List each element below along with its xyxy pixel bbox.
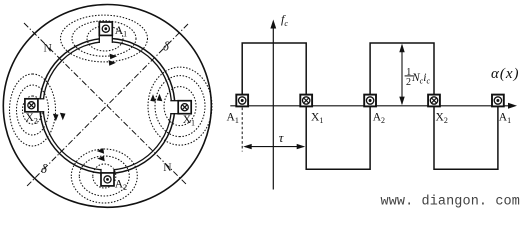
amplitude arrow	[401, 45, 403, 104]
stator outer circle	[3, 5, 211, 208]
flux arrow	[110, 54, 118, 60]
conductor A1' on axis	[492, 95, 504, 107]
rotor ring inner circle	[43, 42, 171, 170]
tau dimension arrow	[245, 146, 304, 148]
conductor X1 (right) slot + square	[170, 101, 192, 114]
conductor X1 on axis	[300, 95, 312, 107]
x axis arrowhead	[508, 103, 517, 109]
rotor ring outer circle	[40, 38, 175, 173]
conductor A1 on axis	[236, 95, 248, 107]
conductor X2 (left) slot + square	[25, 99, 45, 112]
flux arrow	[109, 60, 117, 66]
tau extension dashed line	[241, 108, 243, 152]
flux arrow	[53, 114, 59, 122]
flux arrow	[150, 94, 156, 102]
flux arrow	[60, 113, 66, 121]
svg-text:2: 2	[406, 77, 411, 88]
svg-text:δ: δ	[163, 39, 169, 53]
svg-text:α(x): α(x)	[491, 66, 520, 82]
x axis	[230, 105, 511, 107]
conductor X2 (left) flux loops	[10, 74, 66, 146]
svg-text:www. diangon. com: www. diangon. com	[381, 194, 520, 209]
conductor A2 (bottom) slot + square	[101, 168, 114, 186]
label 1/2 Nc ic	[405, 67, 431, 88]
conductor A1 (top) flux loops	[61, 15, 148, 66]
svg-text:N: N	[44, 42, 53, 54]
y axis arrowhead	[270, 20, 276, 29]
mmf square wave	[242, 43, 498, 169]
y axis	[272, 25, 274, 190]
flux arrow	[97, 148, 105, 154]
svg-text:δ: δ	[41, 162, 47, 176]
conductor A2 on axis	[364, 95, 376, 107]
pole axis NE-SW (dash-dot)	[26, 24, 188, 187]
conductor X1 (right) flux loops	[148, 67, 212, 145]
pole axis NW-SE (dash-dot)	[24, 23, 187, 185]
flux arrow	[97, 156, 105, 162]
conductor A1 (top) slot + square	[99, 22, 112, 44]
svg-text:N: N	[163, 162, 172, 174]
flux arrow	[157, 94, 163, 102]
conductor A2 (bottom) flux loops	[71, 148, 137, 203]
conductor X2 on axis	[428, 95, 440, 107]
